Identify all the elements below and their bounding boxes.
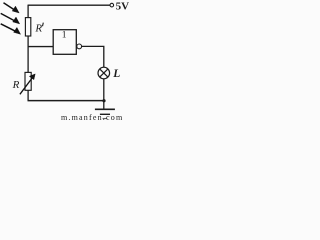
svg-text:m.manfen.com: m.manfen.com [61,113,123,121]
wire R bottom stub [27,90,29,100]
svg-text:1: 1 [62,31,67,41]
rheostat arrow [20,74,35,94]
wire gate output to lamp [82,46,104,68]
svg-text:R: R [34,23,42,35]
wire R' top drop [27,5,29,18]
light arrow 2 [1,13,20,24]
op-amp U1 NOT-gate box [53,30,76,55]
light arrow 3 [1,24,21,35]
wire junction to gate input [28,46,54,48]
terminal 5V [110,3,114,7]
photoresistor R' body [25,18,30,36]
label R' [34,23,43,35]
resistor R (rheostat) body [25,72,31,90]
svg-text:L: L [112,68,120,80]
wire lamp bottom to ground [103,79,105,109]
wire top rail from R' to 5V terminal [28,4,110,6]
lamp L symbol [98,67,110,79]
ground [95,109,115,118]
junction dot [102,99,105,102]
wire bottom rail [28,100,105,102]
inverter bubble [77,44,82,49]
wire R' bottom to R top (junction column) [27,36,29,72]
svg-text:R: R [12,79,20,91]
svg-text:5V: 5V [116,1,130,13]
light arrow 1 [4,3,20,13]
